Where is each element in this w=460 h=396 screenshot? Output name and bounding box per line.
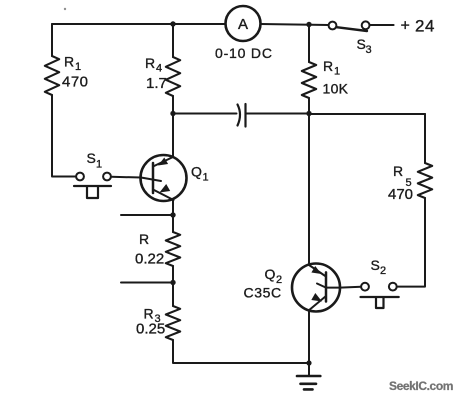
- svg-text:24: 24: [415, 17, 435, 36]
- ground bar 3: [304, 388, 313, 391]
- node junction dot capacitor right: [306, 111, 311, 116]
- svg-text:R: R: [64, 54, 74, 70]
- node junction dot capacitor left: [170, 111, 175, 116]
- svg-text:10K: 10K: [323, 81, 349, 97]
- wire R4 to Q1 collector: [172, 96, 174, 157]
- node junction dot ground: [306, 360, 311, 365]
- wire tap 2: [121, 282, 173, 284]
- resistor R3 0.25: [166, 306, 180, 340]
- transistor Q1 collector diagonal: [153, 157, 173, 167]
- switch S2 right contact circle: [389, 283, 397, 291]
- resistor R1 470 (left): [45, 56, 59, 95]
- svg-text:R: R: [145, 55, 155, 71]
- wire Q2 base to S2: [340, 286, 361, 289]
- switch S1 left contact circle: [76, 173, 84, 181]
- wire between R and R3: [172, 266, 174, 306]
- svg-text:2: 2: [380, 265, 386, 277]
- node junction dot top of R4: [170, 21, 175, 26]
- svg-text:0.22: 0.22: [135, 251, 164, 268]
- svg-text:R: R: [144, 306, 154, 322]
- svg-text:0-10 DC: 0-10 DC: [215, 45, 273, 61]
- capacitor C1 straight plate: [244, 104, 246, 127]
- switch S1 pushbutton bar: [74, 185, 111, 187]
- svg-text:S: S: [87, 150, 96, 166]
- wire S1 to Q1 base: [111, 176, 141, 179]
- switch S1 plunger: [87, 187, 98, 199]
- ground bar 2: [301, 382, 317, 385]
- transistor Q2 collector diagonal: [309, 265, 326, 277]
- switch S2 left contact circle: [361, 283, 369, 291]
- wire left column lower to S1: [52, 95, 76, 177]
- svg-text:Q: Q: [191, 164, 202, 180]
- wire S3 to +24 terminal: [370, 24, 394, 26]
- svg-text:1: 1: [75, 61, 81, 73]
- wire top rail left (node +supply to ammeter): [64, 8, 66, 10]
- transistor Q2 base bar: [325, 272, 328, 301]
- switch S3 right contact circle: [362, 21, 370, 29]
- svg-text:A: A: [238, 16, 248, 33]
- transistor Q1 base lead inside: [141, 178, 161, 182]
- svg-text:C35C: C35C: [244, 285, 282, 301]
- svg-text:R: R: [323, 58, 333, 74]
- transistor Q2 collector arrow: [311, 266, 321, 274]
- resistor R5 470: [418, 163, 432, 198]
- wire capacitor left lead: [173, 113, 237, 115]
- wire right column upper: [424, 114, 426, 163]
- wire top rail from ammeter to S3: [261, 24, 329, 25]
- wire Q1 emitter down: [172, 200, 174, 233]
- wire 10K bottom to junction: [308, 98, 310, 114]
- svg-text:+: +: [401, 18, 410, 35]
- svg-text:R: R: [139, 231, 149, 247]
- wire tap 1: [121, 214, 173, 216]
- wire Q2 emitter down: [308, 311, 310, 364]
- transistor Q2 circle: [292, 264, 340, 312]
- transistor Q1 base bar: [152, 163, 155, 193]
- svg-text:1.7: 1.7: [146, 75, 167, 92]
- transistor Q1 emitter diagonal: [153, 190, 174, 201]
- svg-text:470: 470: [388, 186, 413, 203]
- transistor Q2 emitter diagonal: [309, 296, 326, 311]
- svg-text:1: 1: [96, 159, 102, 171]
- svg-text:1: 1: [203, 172, 209, 184]
- svg-text:R: R: [393, 163, 403, 179]
- svg-text:S: S: [371, 257, 380, 273]
- switch S3 left contact circle: [329, 22, 337, 30]
- wire right rail horizontal to R5: [309, 113, 425, 115]
- node junction dot tap 1: [170, 212, 175, 217]
- resistor R1 10K: [302, 62, 316, 98]
- transistor Q2 base lead inside: [317, 284, 340, 288]
- svg-text:1: 1: [334, 66, 340, 78]
- ammeter U1 circle: [226, 6, 261, 41]
- resistor R 0.22: [166, 232, 180, 266]
- node junction dot top of R1 10K: [306, 22, 311, 27]
- transistor Q2 emitter arrow: [311, 293, 322, 302]
- wire middle column top (R4 branch): [172, 24, 174, 57]
- svg-text:Q: Q: [265, 266, 276, 282]
- svg-text:4: 4: [156, 63, 162, 75]
- switch S1 right contact circle: [103, 173, 111, 181]
- switch S2 plunger: [376, 298, 384, 309]
- capacitor C1 curved plate: [238, 105, 241, 126]
- wire left column upper: [51, 24, 53, 56]
- svg-text:S: S: [357, 36, 366, 52]
- transistor Q1 collector arrow: [158, 158, 168, 166]
- switch S3 blade: [337, 27, 368, 31]
- node junction dot tap 2: [170, 280, 175, 285]
- wire capacitor right lead: [246, 113, 310, 115]
- ground bar 1: [297, 375, 320, 378]
- switch S2 pushbutton bar: [361, 296, 399, 298]
- wire right column lower to S2: [397, 198, 425, 287]
- wire R1 10K column: [308, 25, 310, 63]
- svg-text:3: 3: [366, 44, 372, 56]
- wire ground stub: [308, 363, 310, 376]
- transistor Q1 circle: [141, 155, 187, 201]
- wire Q2 collector from junction: [308, 114, 310, 266]
- resistor R4 1.7: [166, 57, 180, 96]
- wire R3 bottom to ground rail: [173, 340, 309, 363]
- svg-text:470: 470: [62, 74, 89, 91]
- svg-text:0.25: 0.25: [136, 321, 165, 338]
- transistor Q1 emitter arrow: [160, 184, 171, 193]
- svg-text:SeekIC.com: SeekIC.com: [389, 379, 453, 393]
